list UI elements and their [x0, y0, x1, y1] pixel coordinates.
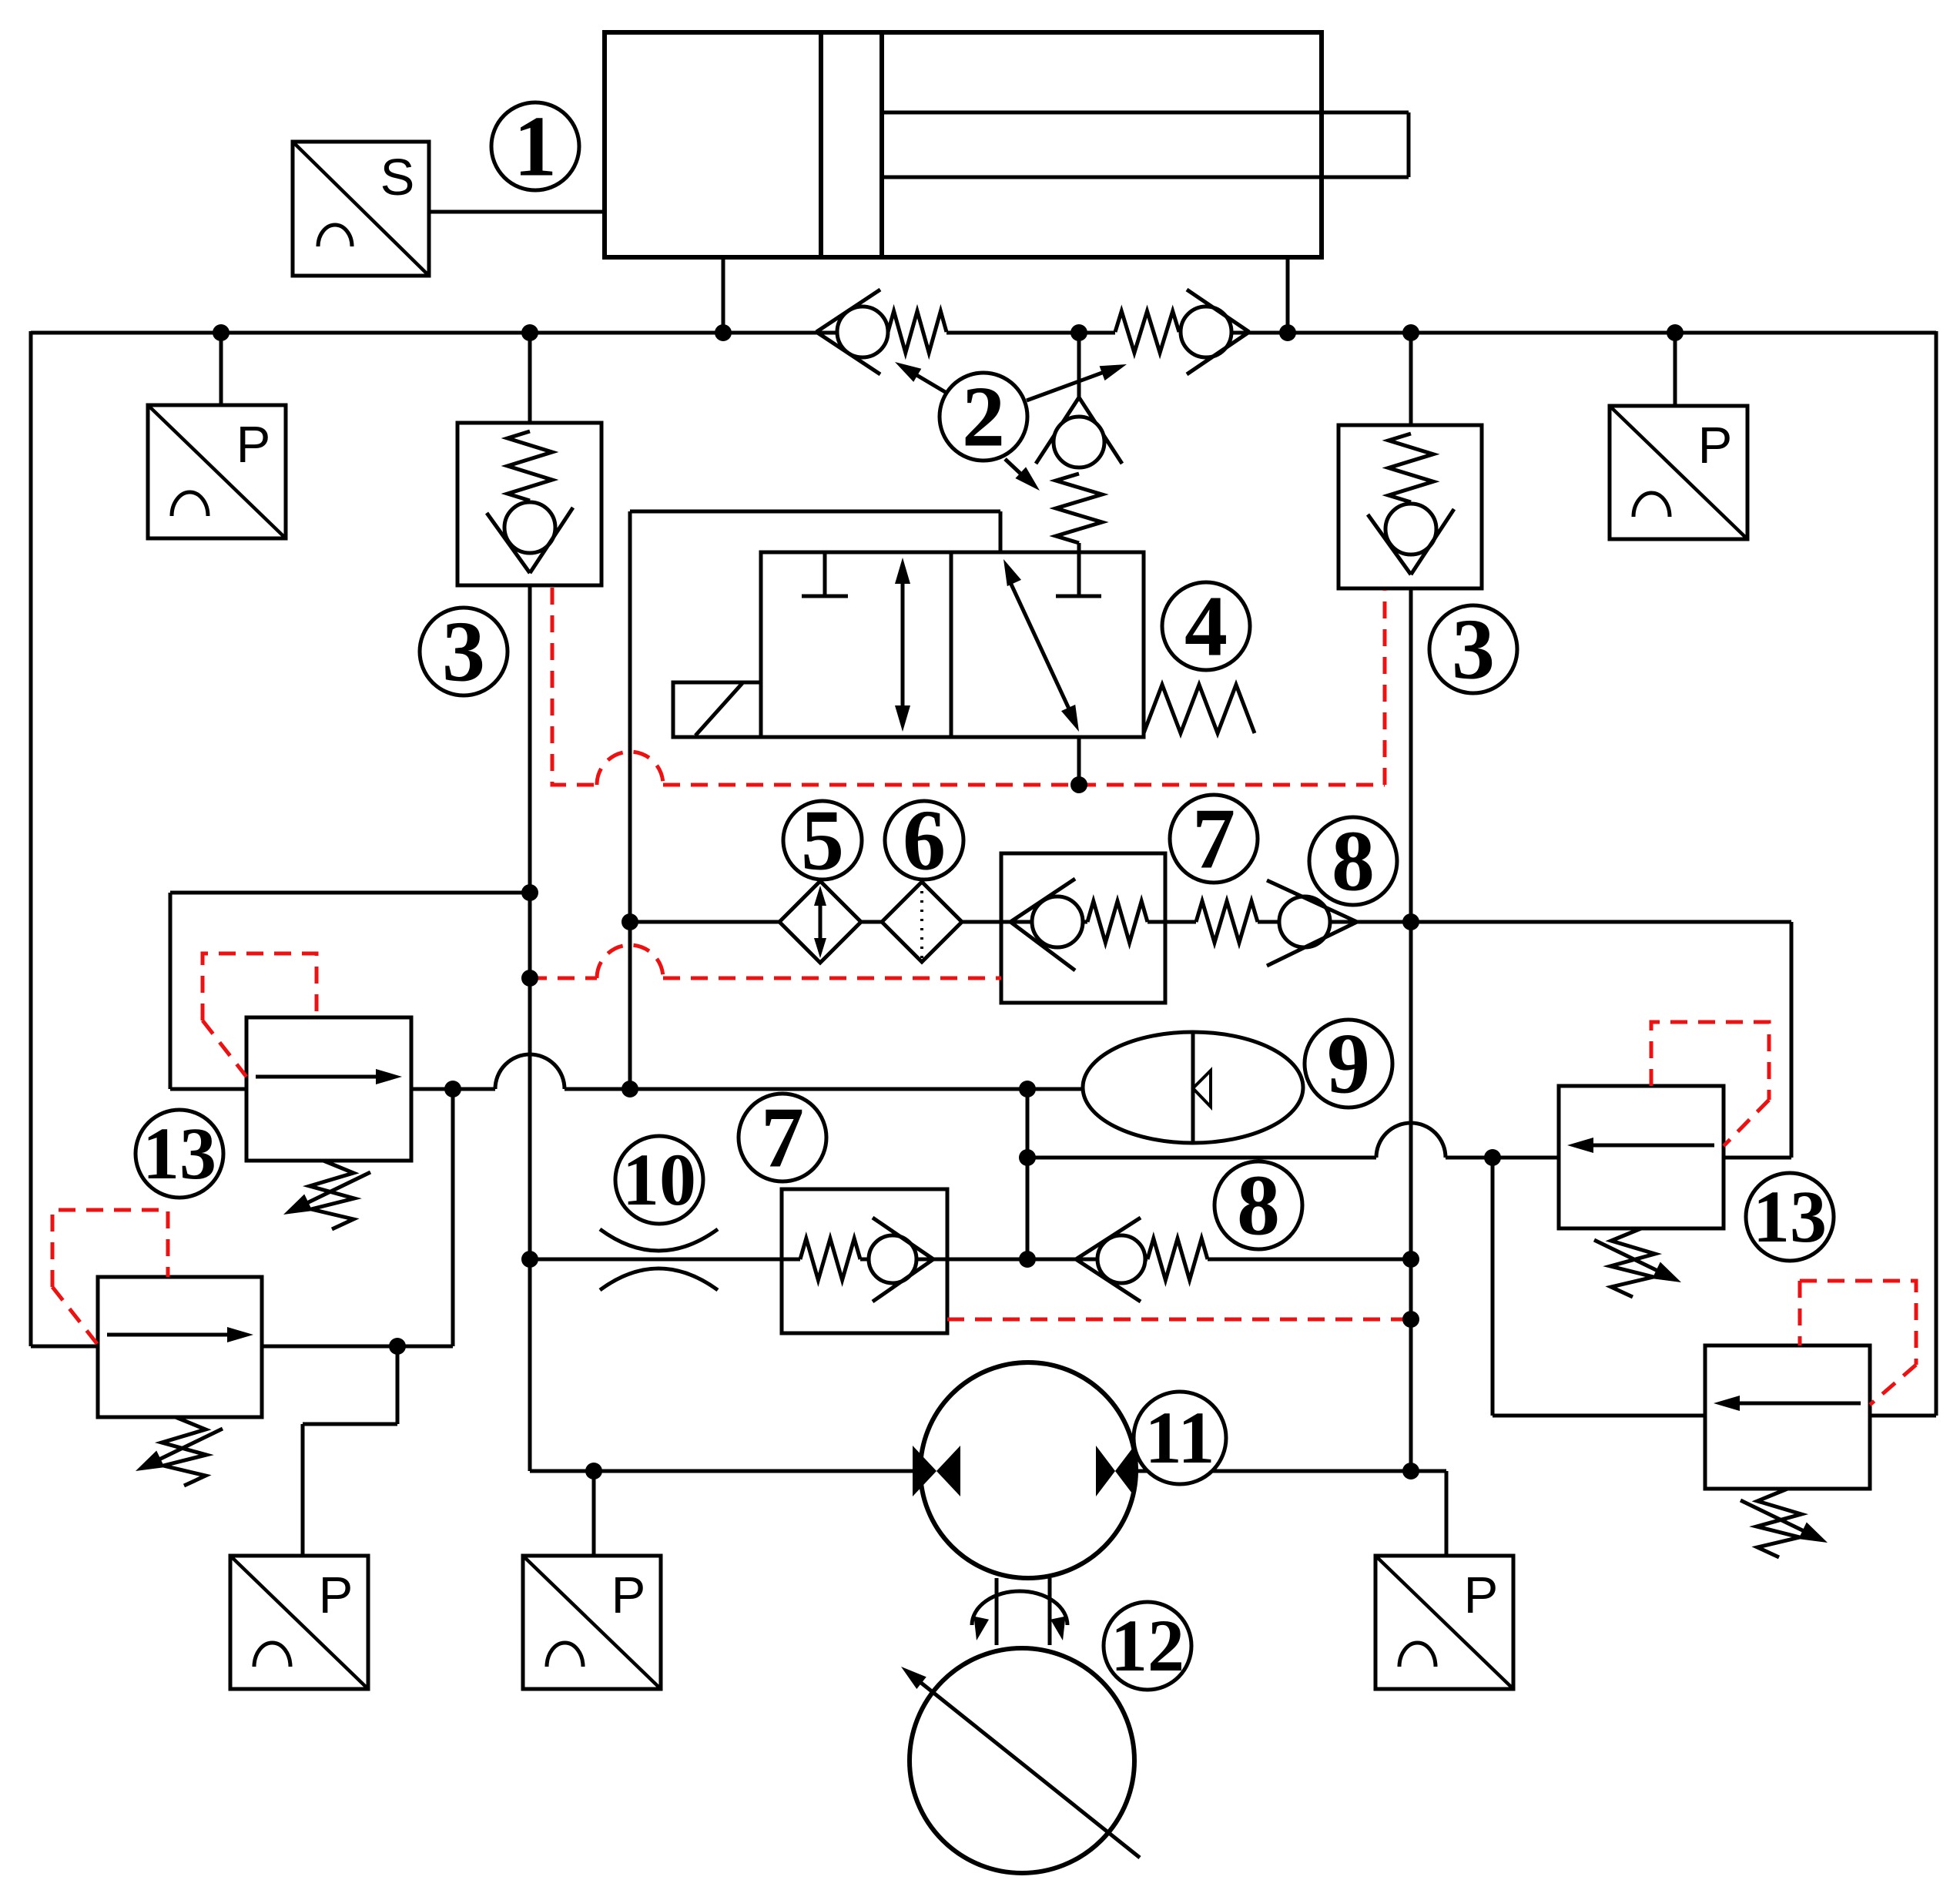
wire column x1832 upper — [1409, 333, 1413, 425]
relief valve 13 lower-right body — [1705, 1345, 1870, 1489]
svg-text:6: 6 — [903, 793, 946, 889]
pilot line to check valve 7b — [947, 1318, 1411, 1322]
svg-text:13: 13 — [142, 1112, 216, 1195]
label 8b — [1215, 1158, 1302, 1254]
relief valve 13 lower-left spring — [136, 1417, 223, 1486]
filter 5 diamond — [779, 881, 861, 963]
pilot line relief 13 upper-right — [1651, 1022, 1769, 1146]
label 6 — [885, 793, 963, 889]
wire jog to gauge P3 — [1411, 1471, 1446, 1556]
pressure gauge P top-left — [148, 405, 286, 538]
wire row 1414 — [411, 1054, 1083, 1089]
wire column x1938 — [1493, 1158, 1705, 1416]
pilot line relief 13 upper-left — [203, 953, 317, 1077]
pressure gauge P bottom-left — [230, 1556, 368, 1689]
orifice 10 — [600, 1229, 718, 1290]
check valve 8 spring — [1196, 901, 1258, 943]
wire row 1635 — [530, 1258, 1411, 1262]
svg-text:S: S — [380, 149, 415, 206]
svg-text:7: 7 — [1192, 792, 1235, 887]
check valve 3 right body — [1338, 425, 1482, 588]
relief valve 13 upper-right spring — [1594, 1228, 1681, 1297]
svg-text:3: 3 — [1452, 602, 1495, 698]
check valve 7b spring — [800, 1238, 860, 1280]
relief valve 13 lower-right arrow — [1714, 1396, 1861, 1411]
check valve 3 right spring — [1389, 434, 1433, 502]
wire jog to gauge P1 — [303, 1346, 397, 1556]
junction valve4 pilot — [1070, 776, 1087, 793]
check valve 3 left seat — [487, 508, 573, 573]
svg-text:8: 8 — [1237, 1158, 1280, 1254]
pump 11 circle — [920, 1362, 1136, 1578]
label 1 — [491, 99, 579, 195]
label 8 — [1309, 814, 1397, 910]
check valve 8b seat — [1076, 1218, 1141, 1302]
check valve 2 left ball — [837, 307, 888, 357]
wire pump delivery — [1134, 1469, 1411, 1473]
relief valve 13 lower-left arrow — [107, 1327, 253, 1342]
wire row 1159 to relief 13 — [170, 893, 530, 1089]
svg-text:13: 13 — [1753, 1175, 1827, 1258]
check valve 2 right ball — [1181, 307, 1231, 357]
pilot line relief 13 lower-left — [52, 1210, 168, 1345]
label 10 — [615, 1136, 703, 1224]
relief valve 13 upper-left arrow — [256, 1069, 402, 1084]
flow meter 9 ellipse — [1083, 1032, 1303, 1143]
sensor S box — [293, 142, 429, 276]
relief valve 13 upper-left spring — [283, 1161, 370, 1229]
pump 11 left flow triangles — [913, 1446, 960, 1496]
wire row 1197 — [630, 920, 1791, 924]
check valve 2 right seat — [1187, 290, 1249, 374]
label 5 — [783, 793, 862, 889]
wire top bus — [31, 331, 1936, 335]
svg-text:4: 4 — [1184, 579, 1228, 675]
cylinder 1 piston rod — [882, 112, 1409, 177]
check valve 2 left seat — [816, 290, 880, 374]
check valve 2 center ball — [1054, 417, 1104, 467]
wire pump suction — [530, 1469, 913, 1473]
wire valve 4 upper link — [630, 511, 1000, 552]
relief valve 13 upper-right arrow — [1567, 1138, 1714, 1153]
valve 4 solenoid — [673, 682, 761, 737]
svg-text:12: 12 — [1111, 1604, 1184, 1687]
svg-text:P: P — [1464, 1567, 1499, 1624]
wire column x688 lower — [528, 585, 532, 1471]
pressure gauge P bottom-right — [1375, 1556, 1513, 1689]
wire cylinder left port — [722, 257, 725, 333]
label 4 — [1162, 579, 1250, 675]
wire relief outlet column x588 — [451, 1089, 455, 1346]
check valve 2 center spring — [1056, 474, 1102, 543]
check valve 8b spring — [1148, 1238, 1208, 1280]
valve 4 body — [761, 552, 1144, 737]
wire column x688 upper — [528, 333, 532, 424]
check valve 8 ball — [1279, 896, 1330, 947]
check valve 3 left ball — [504, 502, 555, 553]
relief valve 13 upper-left body — [246, 1017, 411, 1161]
label 11 — [1134, 1392, 1226, 1484]
wire to left pressure gauge — [219, 333, 223, 405]
label 12 — [1104, 1602, 1191, 1690]
valve 4 right square T — [1056, 552, 1101, 596]
wire row 1503 — [1027, 1123, 1559, 1158]
pressure gauge P top-right — [1610, 406, 1747, 539]
relief valve 13 lower-right spring — [1741, 1489, 1828, 1557]
check valve 8b ball — [1097, 1235, 1145, 1283]
label 13 left — [136, 1110, 223, 1198]
label 9 — [1305, 1017, 1392, 1112]
wire center pilot column — [1077, 333, 1081, 397]
wire column x818 — [628, 511, 632, 1089]
svg-text:2: 2 — [962, 370, 1005, 465]
valve 4 return spring — [1144, 685, 1255, 733]
wire to gauge P2 — [592, 1471, 596, 1556]
pilot line to check valve 7 — [530, 945, 1001, 978]
svg-text:P: P — [236, 416, 271, 474]
label 3 left — [420, 605, 508, 700]
check valve 3 left body — [457, 423, 601, 585]
svg-text:3: 3 — [442, 605, 485, 700]
svg-text:9: 9 — [1327, 1017, 1370, 1112]
valve 4 left square tank port T — [802, 552, 848, 596]
check valve 2 center seat — [1036, 397, 1122, 464]
check valve 2 left spring — [888, 311, 946, 353]
hydraulic cylinder 1 body — [605, 32, 1322, 257]
wire left border — [31, 331, 98, 1346]
label 7b — [739, 1091, 826, 1186]
wire valve 4 bottom port — [1077, 737, 1081, 785]
shaft rotation arrow — [972, 1591, 1067, 1640]
pressure gauge P bottom-middle — [523, 1556, 661, 1689]
valve 4 right square arrow — [1003, 559, 1079, 732]
valve 4 left square double arrow — [895, 558, 910, 732]
svg-text:1: 1 — [514, 99, 557, 195]
motor 12 variable arrow — [901, 1667, 1140, 1858]
wire column x1832 lower — [1409, 588, 1413, 1471]
wire cylinder right port — [1286, 257, 1290, 333]
svg-text:7: 7 — [761, 1091, 804, 1186]
check valve 7 spring — [1087, 901, 1148, 943]
wire to right pressure gauge — [1674, 333, 1677, 406]
wire right loop to relief — [1724, 922, 1791, 1158]
filter 6 diamond — [882, 882, 962, 962]
svg-text:11: 11 — [1145, 1396, 1215, 1479]
pilot operated check valve 7 body — [1001, 853, 1165, 1003]
check valve 3 left spring — [508, 431, 552, 501]
relief valve 13 upper-right body — [1559, 1086, 1724, 1228]
check valve 7 ball — [1032, 896, 1083, 947]
check valve 2 right spring — [1115, 311, 1179, 353]
check valve 7 seat — [1010, 879, 1075, 970]
check valve 3 right ball — [1385, 504, 1436, 555]
pump 11 right flow triangles — [1096, 1446, 1134, 1496]
wire right border — [1870, 331, 1936, 1416]
label 3 right — [1429, 602, 1517, 698]
pilot operated check valve 7b body — [782, 1189, 947, 1333]
motor 12 circle — [910, 1648, 1134, 1873]
wire column x1334 — [1026, 1089, 1030, 1259]
label 2 — [895, 362, 1127, 491]
check valve 7b ball — [869, 1235, 916, 1283]
pump-motor shaft — [997, 1578, 1050, 1645]
pilot line relief 13 lower-right — [1800, 1281, 1916, 1405]
label 13 right — [1746, 1173, 1834, 1261]
svg-text:5: 5 — [801, 793, 844, 889]
relief valve 13 lower-left body — [98, 1277, 262, 1417]
svg-text:P: P — [1698, 417, 1733, 474]
svg-text:P: P — [611, 1567, 646, 1624]
svg-text:10: 10 — [622, 1138, 696, 1221]
svg-text:8: 8 — [1332, 814, 1375, 910]
wire sensor to cylinder — [429, 210, 605, 214]
check valve 7b seat — [873, 1218, 933, 1302]
wire center stem — [1077, 543, 1081, 596]
label 7 — [1170, 792, 1258, 887]
svg-text:P: P — [319, 1567, 353, 1624]
check valve 8 seat — [1267, 880, 1357, 966]
pilot line from valve 4 to check valves 3 — [552, 588, 1385, 785]
wire relief outlets join — [262, 1345, 453, 1349]
check valve 3 right seat — [1368, 509, 1454, 575]
